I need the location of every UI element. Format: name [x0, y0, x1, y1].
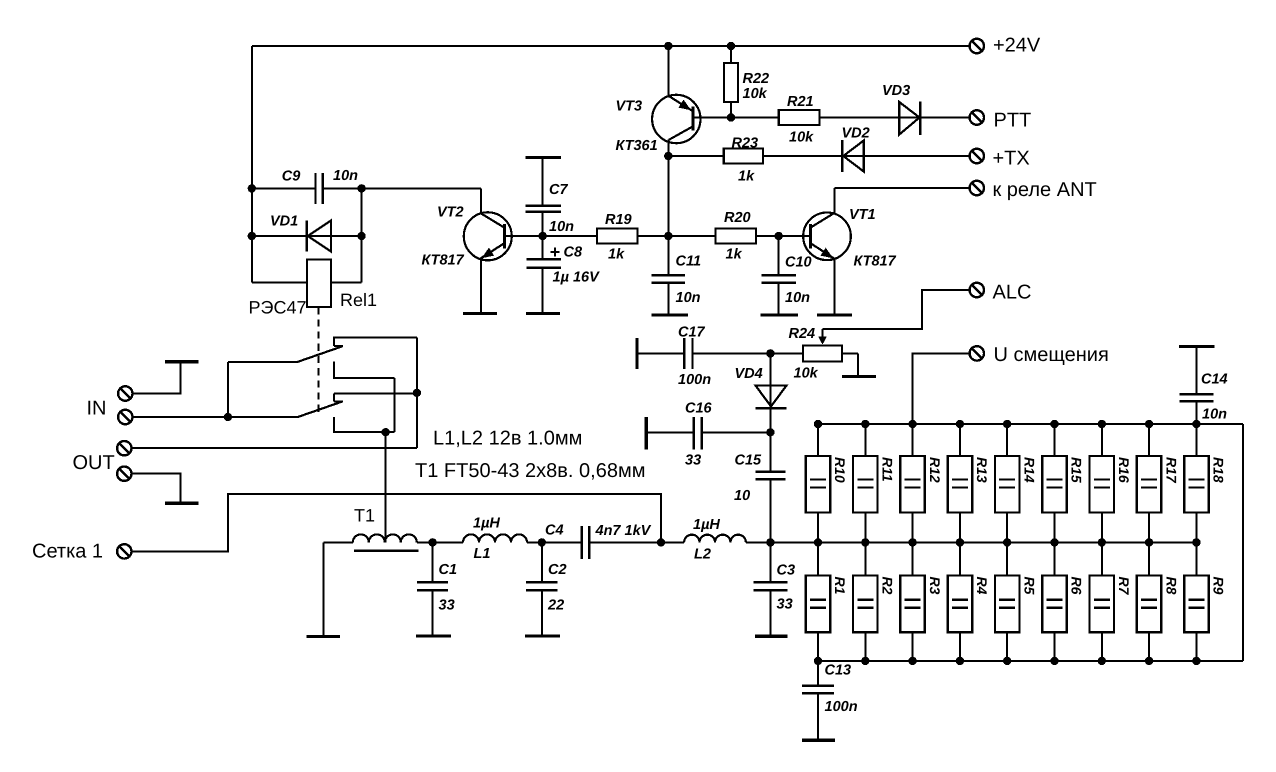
wire — [133, 416, 298, 418]
potentiometer R24 — [770, 326, 858, 382]
node R3 bottom — [908, 657, 916, 665]
node R11 top — [861, 420, 869, 428]
svg-text:R23: R23 — [732, 136, 759, 152]
terminal Сетка 1 — [117, 544, 131, 558]
svg-text:U смещения: U смещения — [994, 344, 1109, 366]
svg-text:Rel1: Rel1 — [340, 290, 377, 310]
svg-text:к реле ANT: к реле ANT — [993, 179, 1097, 201]
node R12 mid — [908, 538, 916, 546]
ground T1 — [307, 635, 340, 638]
node switch out node — [413, 389, 421, 397]
terminal IN lower — [118, 410, 132, 424]
transformer T1 — [324, 506, 419, 636]
resistor R10 — [806, 424, 848, 542]
resistor R19 — [543, 212, 669, 263]
svg-text:OUT: OUT — [73, 452, 115, 474]
ground C1 — [416, 634, 451, 637]
wire — [228, 361, 298, 363]
svg-text:R15: R15 — [1069, 457, 1085, 483]
node R12 top — [908, 420, 916, 428]
ground C13 — [802, 739, 835, 742]
terminal +TX — [970, 149, 984, 163]
svg-text:R14: R14 — [1021, 457, 1037, 483]
svg-text:T1: T1 — [354, 506, 375, 526]
relay contact arm 1 — [298, 346, 343, 362]
terminal PTT — [970, 110, 984, 124]
svg-text:ALC: ALC — [993, 282, 1032, 304]
ground C2 — [525, 634, 560, 637]
node VT3/+24V — [664, 42, 672, 50]
terminal IN upper — [118, 386, 132, 400]
svg-text:R17: R17 — [1163, 457, 1179, 484]
svg-text:R11: R11 — [880, 457, 896, 482]
svg-text:R4: R4 — [974, 577, 990, 595]
resistor R8 — [1137, 542, 1179, 661]
svg-text:33: 33 — [685, 453, 701, 469]
node IN node — [224, 413, 232, 421]
transistor VT2 KT817 — [422, 205, 543, 269]
node C9 left — [248, 184, 256, 192]
node R19/R20 node — [664, 232, 672, 240]
svg-text:R19: R19 — [605, 212, 632, 228]
svg-text:+TX: +TX — [993, 148, 1030, 170]
wire — [362, 187, 482, 189]
wire — [833, 188, 835, 214]
node R9 bottom — [1192, 657, 1200, 665]
resistor R6 — [1042, 542, 1084, 661]
node R15 mid — [1050, 538, 1058, 546]
svg-text:R13: R13 — [974, 457, 990, 483]
node VT2 base node — [539, 232, 547, 240]
svg-text:4n7 1kV: 4n7 1kV — [595, 523, 652, 539]
wire — [132, 447, 417, 449]
resistor R2 — [853, 542, 895, 661]
svg-text:C1: C1 — [439, 562, 458, 578]
capacitor C13 — [802, 661, 858, 739]
svg-text:100n: 100n — [825, 699, 858, 715]
svg-text:10k: 10k — [789, 130, 814, 146]
node C15/C3/rail — [766, 538, 774, 546]
relay actuator dashed link — [318, 307, 320, 415]
node R22/R21 — [727, 113, 735, 121]
wire ALC — [823, 290, 970, 329]
wire Сетка 1 — [132, 494, 662, 551]
capacitor C3 — [753, 542, 795, 634]
ground C11 — [652, 313, 688, 316]
svg-text:VD4: VD4 — [735, 366, 763, 382]
wire — [416, 338, 418, 449]
terminal +24V — [970, 39, 984, 53]
diode VD2 — [763, 126, 970, 173]
wire — [480, 259, 482, 313]
svg-text:C13: C13 — [825, 663, 852, 679]
svg-text:1k: 1k — [726, 247, 743, 263]
resistor R4 — [948, 542, 990, 661]
svg-text:IN: IN — [87, 398, 107, 420]
wire — [667, 140, 669, 237]
transistor VT3 KT361 — [616, 95, 732, 154]
svg-text:R5: R5 — [1021, 577, 1037, 595]
capacitor C7 — [526, 158, 575, 237]
relay Rel1 (РЭС47) — [249, 260, 378, 318]
resistor R21 — [779, 94, 820, 146]
capacitor C11 — [652, 236, 701, 314]
ground VT1 — [817, 313, 852, 316]
svg-text:10: 10 — [734, 488, 750, 504]
node VD4/C16/C15 — [766, 428, 774, 436]
svg-text:VD3: VD3 — [882, 83, 910, 99]
svg-text:10n: 10n — [676, 290, 701, 306]
svg-text:VT1: VT1 — [849, 207, 876, 223]
resistor R15 — [1042, 424, 1084, 542]
svg-text:Сетка 1: Сетка 1 — [32, 541, 103, 563]
wire — [667, 46, 669, 96]
svg-text:C14: C14 — [1201, 372, 1228, 388]
capacitor C10 — [761, 236, 811, 314]
capacitor C8 — [527, 236, 600, 312]
resistor R5 — [995, 542, 1037, 661]
capacitor C14 — [1179, 346, 1228, 424]
svg-text:C8: C8 — [564, 245, 583, 261]
inductor L1 — [417, 516, 542, 563]
svg-text:КТ361: КТ361 — [616, 138, 658, 154]
svg-text:R16: R16 — [1116, 457, 1132, 483]
svg-text:R12: R12 — [927, 457, 943, 483]
svg-text:C9: C9 — [282, 169, 301, 185]
svg-text:C2: C2 — [548, 562, 567, 578]
capacitor C15 — [734, 432, 785, 542]
wire — [818, 423, 1243, 425]
node R10 mid — [814, 538, 822, 546]
svg-text:L2: L2 — [694, 547, 711, 563]
node R15 top — [1050, 420, 1058, 428]
node R22/+24V — [727, 42, 735, 50]
node R18 top — [1192, 420, 1200, 428]
svg-text:22: 22 — [547, 598, 564, 614]
wire IN upper to chassis — [133, 363, 181, 394]
relay contact arm 2 — [298, 402, 343, 418]
resistor R7 — [1090, 542, 1132, 661]
chassis bar IN — [165, 360, 198, 363]
svg-text:C11: C11 — [676, 254, 702, 270]
node R13 mid — [956, 538, 964, 546]
svg-text:R2: R2 — [880, 577, 896, 595]
resistor R11 — [853, 424, 895, 542]
svg-text:1k: 1k — [608, 247, 625, 263]
resistor R3 — [900, 542, 942, 661]
terminal U смещения — [970, 346, 984, 360]
svg-text:VT2: VT2 — [437, 205, 464, 221]
terminal OUT upper — [117, 441, 131, 455]
diode VD4 — [735, 353, 787, 432]
node R16 mid — [1098, 538, 1106, 546]
node R5 bottom — [1003, 657, 1011, 665]
node R7 bottom — [1098, 657, 1106, 665]
capacitor C16 — [646, 401, 770, 469]
svg-text:R6: R6 — [1069, 577, 1085, 595]
wire — [818, 660, 1243, 662]
svg-text:R10: R10 — [832, 457, 848, 483]
node R6 bottom — [1050, 657, 1058, 665]
ground C3 — [755, 635, 788, 638]
diode VD1 — [252, 214, 362, 252]
wire — [731, 117, 779, 119]
svg-text:33: 33 — [439, 598, 455, 614]
resistor R23 — [668, 136, 763, 185]
svg-text:R7: R7 — [1116, 577, 1132, 596]
svg-text:R9: R9 — [1211, 577, 1227, 595]
wire — [1242, 424, 1244, 661]
svg-text:33: 33 — [777, 597, 793, 613]
svg-text:R8: R8 — [1163, 577, 1179, 595]
svg-text:C10: C10 — [785, 255, 812, 271]
svg-text:10n: 10n — [785, 290, 810, 306]
resistor R1 — [806, 542, 848, 661]
svg-text:VD2: VD2 — [842, 126, 870, 142]
node C4/L2/Сетка — [657, 538, 665, 546]
resistor R13 — [948, 424, 990, 542]
resistor R16 — [1090, 424, 1132, 542]
inductor L2 — [661, 517, 770, 563]
svg-text:КТ817: КТ817 — [854, 254, 897, 270]
terminal к реле ANT — [970, 181, 984, 195]
capacitor C17 — [637, 325, 770, 389]
node R14 mid — [1003, 538, 1011, 546]
resistor R20 — [668, 210, 778, 263]
svg-text:R20: R20 — [724, 210, 751, 226]
wire — [251, 46, 253, 282]
wire — [361, 188, 363, 282]
svg-text:10n: 10n — [1202, 407, 1227, 423]
node R17 top — [1145, 420, 1153, 428]
resistor R18 — [1184, 424, 1226, 542]
node R10 top — [814, 420, 822, 428]
svg-text:100n: 100n — [678, 372, 711, 388]
svg-text:VT3: VT3 — [616, 99, 643, 115]
node T1 tap node — [381, 428, 389, 436]
svg-text:10k: 10k — [743, 86, 768, 102]
wire — [480, 188, 482, 214]
capacitor C4 — [542, 523, 661, 560]
svg-text:T1 FT50-43 2х8в. 0,68мм: T1 FT50-43 2х8в. 0,68мм — [415, 460, 645, 482]
terminal OUT lower — [117, 467, 131, 481]
ground C8 — [526, 312, 560, 315]
resistor R14 — [995, 424, 1037, 542]
svg-text:10k: 10k — [794, 366, 819, 382]
wire — [394, 378, 396, 432]
resistor R17 — [1137, 424, 1179, 542]
node C17/R24/VD4 — [766, 349, 774, 357]
svg-text:L1,L2 12в 1.0мм: L1,L2 12в 1.0мм — [433, 428, 582, 450]
svg-text:+24V: +24V — [993, 35, 1041, 57]
svg-text:C17: C17 — [678, 325, 706, 341]
svg-text:C4: C4 — [545, 523, 564, 539]
svg-text:C15: C15 — [735, 453, 763, 469]
node C9 right — [357, 184, 365, 192]
capacitor C9 — [252, 168, 362, 204]
node R13 top — [956, 420, 964, 428]
svg-text:VD1: VD1 — [270, 214, 298, 230]
node R11 mid — [861, 538, 869, 546]
ground VT2 — [463, 312, 497, 315]
svg-text:L1: L1 — [474, 546, 491, 562]
terminal ALC — [970, 283, 984, 297]
wire — [834, 187, 969, 189]
svg-text:R21: R21 — [787, 94, 814, 110]
svg-text:1µH: 1µH — [693, 517, 720, 533]
resistor R22 — [724, 46, 769, 118]
wire — [385, 432, 387, 542]
node R18 mid — [1192, 538, 1200, 546]
resistor R9 — [1184, 542, 1226, 661]
diode VD3 — [819, 83, 969, 135]
svg-text:10n: 10n — [549, 219, 574, 235]
node R8 bottom — [1145, 657, 1153, 665]
svg-text:PTT: PTT — [994, 110, 1032, 132]
wire — [770, 541, 1196, 543]
switch frame lower — [334, 394, 417, 433]
svg-text:РЭС47: РЭС47 — [249, 298, 307, 318]
node VD1 left — [248, 232, 256, 240]
node R17 mid — [1145, 538, 1153, 546]
wire OUT lower to chassis — [132, 474, 181, 502]
svg-text:1µH: 1µH — [473, 516, 500, 532]
switch frame upper — [334, 338, 417, 378]
svg-text:1µ 16V: 1µ 16V — [553, 270, 601, 286]
svg-text:C3: C3 — [777, 563, 796, 579]
chassis bar OUT — [165, 502, 198, 505]
node VD1 right — [357, 232, 365, 240]
ground C10 — [761, 313, 799, 316]
svg-text:R18: R18 — [1211, 457, 1227, 483]
capacitor C1 — [417, 542, 457, 634]
svg-text:R3: R3 — [927, 577, 943, 595]
transistor VT1 KT817 — [779, 207, 897, 270]
node R4 bottom — [956, 657, 964, 665]
wire U смещения — [913, 353, 970, 424]
node R23 node — [664, 152, 672, 160]
node R14 top — [1003, 420, 1011, 428]
svg-text:R1: R1 — [832, 577, 848, 595]
node T1/C1/L1 — [428, 538, 436, 546]
svg-text:10n: 10n — [333, 168, 358, 184]
ground R24 — [842, 375, 876, 378]
node R16 top — [1098, 420, 1106, 428]
svg-text:C16: C16 — [685, 401, 713, 417]
node R20/C10/VT1 — [775, 232, 783, 240]
svg-text:КТ817: КТ817 — [422, 253, 465, 269]
wire — [252, 45, 970, 47]
resistor R12 — [900, 424, 942, 542]
node R1 bottom — [814, 657, 822, 665]
node R2 bottom — [861, 657, 869, 665]
svg-text:C7: C7 — [549, 182, 568, 198]
capacitor C2 — [526, 542, 566, 634]
wire — [227, 362, 229, 417]
svg-text:1k: 1k — [738, 169, 755, 185]
svg-text:R24: R24 — [789, 326, 816, 342]
wire — [833, 259, 835, 314]
node L1/C2/C4 — [538, 538, 546, 546]
svg-text:R22: R22 — [743, 71, 770, 87]
